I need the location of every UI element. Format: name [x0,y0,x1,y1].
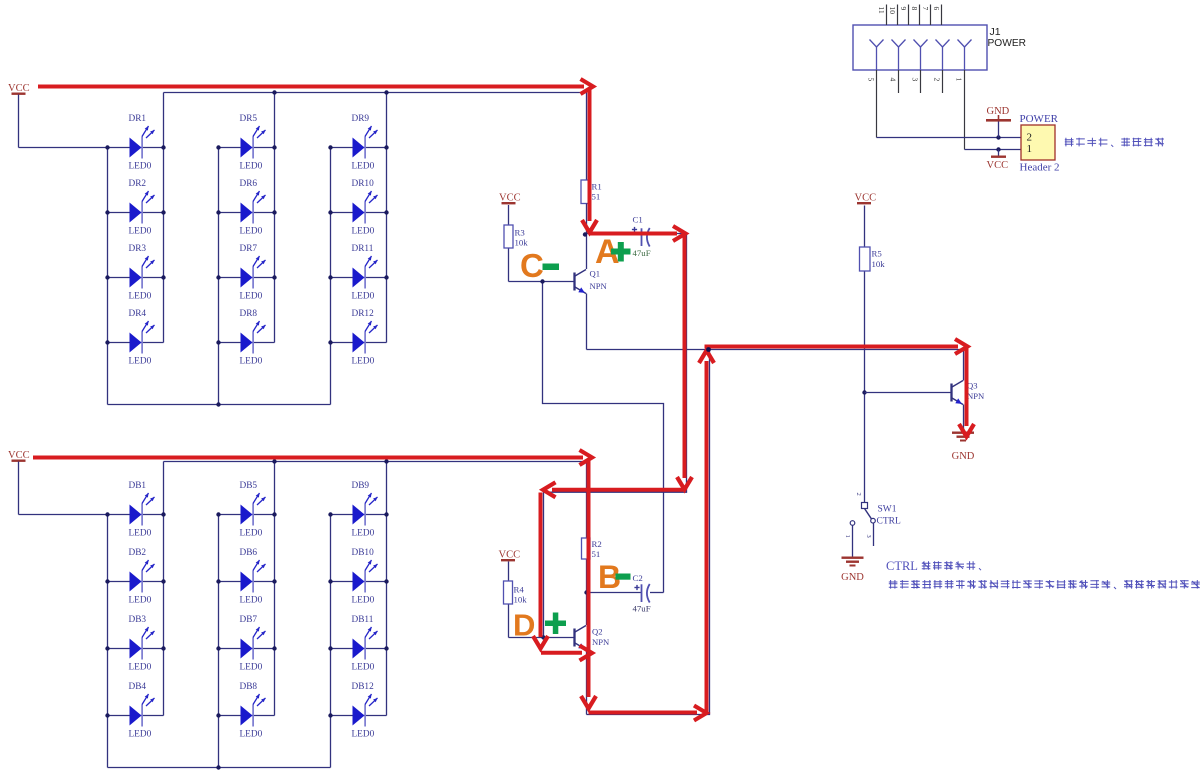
svg-text:R2: R2 [592,539,602,549]
svg-text:10k: 10k [515,238,529,248]
svg-text:DB6: DB6 [240,548,258,558]
svg-text:NPN: NPN [592,637,610,647]
svg-text:9: 9 [899,7,908,11]
svg-text:51: 51 [592,549,601,559]
svg-text:2: 2 [855,493,862,496]
svg-text:Q3: Q3 [967,381,978,391]
svg-text:DR3: DR3 [129,244,147,254]
svg-text:LED0: LED0 [240,529,263,539]
svg-text:DR4: DR4 [129,309,147,319]
svg-text:1: 1 [955,78,964,82]
svg-text:LED0: LED0 [352,292,375,302]
svg-text:SW1: SW1 [878,505,897,515]
svg-text:CTRL: CTRL [886,559,918,573]
svg-text:DR8: DR8 [240,309,258,319]
svg-text:1: 1 [844,535,851,538]
svg-text:DB9: DB9 [352,481,370,491]
svg-text:CTRL: CTRL [877,517,901,527]
svg-text:DR10: DR10 [352,179,375,189]
svg-text:VCC: VCC [855,193,877,204]
svg-text:DR9: DR9 [352,114,370,124]
svg-text:R4: R4 [514,585,525,595]
svg-text:VCC: VCC [8,83,30,94]
svg-text:LED0: LED0 [129,227,152,237]
svg-text:DR5: DR5 [240,114,258,124]
svg-text:LED0: LED0 [129,730,152,740]
svg-text:3: 3 [911,78,920,82]
svg-text:Header 2: Header 2 [1020,162,1060,174]
svg-text:2: 2 [933,78,942,82]
svg-text:VCC: VCC [987,160,1009,171]
svg-text:DB12: DB12 [352,682,375,692]
svg-text:LED0: LED0 [352,730,375,740]
svg-text:GND: GND [841,572,864,583]
svg-text:LED0: LED0 [129,162,152,172]
svg-text:10k: 10k [514,595,528,605]
svg-text:Q2: Q2 [592,627,603,637]
svg-text:C2: C2 [633,573,643,583]
svg-text:DR2: DR2 [129,179,147,189]
svg-text:47uF: 47uF [633,604,651,614]
svg-text:DB1: DB1 [129,481,147,491]
svg-text:LED0: LED0 [240,357,263,367]
svg-text:C: C [520,247,544,284]
svg-text:NPN: NPN [967,391,985,401]
svg-text:DR11: DR11 [352,244,374,254]
svg-text:DB4: DB4 [129,682,147,692]
svg-text:7: 7 [921,7,930,11]
svg-text:47uF: 47uF [633,248,651,258]
svg-text:LED0: LED0 [240,596,263,606]
svg-text:DR1: DR1 [129,114,147,124]
svg-text:GND: GND [952,451,975,462]
svg-text:LED0: LED0 [240,227,263,237]
svg-text:LED0: LED0 [129,529,152,539]
svg-text:10k: 10k [872,259,886,269]
svg-text:DB2: DB2 [129,548,147,558]
svg-text:LED0: LED0 [129,292,152,302]
svg-text:DB5: DB5 [240,481,258,491]
svg-text:POWER: POWER [1020,113,1059,125]
svg-text:4: 4 [889,78,898,82]
svg-text:VCC: VCC [8,450,30,461]
svg-text:LED0: LED0 [240,663,263,673]
svg-text:DB8: DB8 [240,682,258,692]
svg-text:6: 6 [932,7,941,11]
svg-text:DB3: DB3 [129,615,147,625]
svg-text:DR6: DR6 [240,179,258,189]
svg-text:LED0: LED0 [129,357,152,367]
svg-text:DR7: DR7 [240,244,258,254]
svg-text:LED0: LED0 [129,663,152,673]
svg-text:VCC: VCC [499,193,521,204]
svg-text:LED0: LED0 [352,596,375,606]
svg-text:VCC: VCC [499,550,521,561]
svg-text:3: 3 [865,535,872,538]
svg-text:DR12: DR12 [352,309,375,319]
svg-text:5: 5 [867,78,876,82]
svg-text:DB10: DB10 [352,548,375,558]
svg-text:POWER: POWER [988,38,1027,49]
svg-text:LED0: LED0 [129,596,152,606]
svg-text:LED0: LED0 [352,357,375,367]
svg-text:10: 10 [888,7,897,15]
svg-text:1: 1 [1027,143,1033,155]
svg-text:LED0: LED0 [352,227,375,237]
svg-text:R5: R5 [872,249,883,259]
svg-text:DB11: DB11 [352,615,374,625]
svg-text:8: 8 [910,7,919,11]
svg-text:LED0: LED0 [240,162,263,172]
svg-text:11: 11 [877,7,886,14]
svg-text:J1: J1 [990,26,1001,38]
svg-text:51: 51 [592,192,601,202]
svg-text:C1: C1 [633,215,643,225]
svg-text:LED0: LED0 [352,529,375,539]
svg-text:LED0: LED0 [352,162,375,172]
svg-text:R3: R3 [515,228,526,238]
svg-text:DB7: DB7 [240,615,258,625]
svg-text:LED0: LED0 [240,730,263,740]
svg-text:2: 2 [1027,132,1033,144]
svg-text:LED0: LED0 [352,663,375,673]
svg-text:LED0: LED0 [240,292,263,302]
svg-text:NPN: NPN [590,281,608,291]
svg-text:R1: R1 [592,182,602,192]
